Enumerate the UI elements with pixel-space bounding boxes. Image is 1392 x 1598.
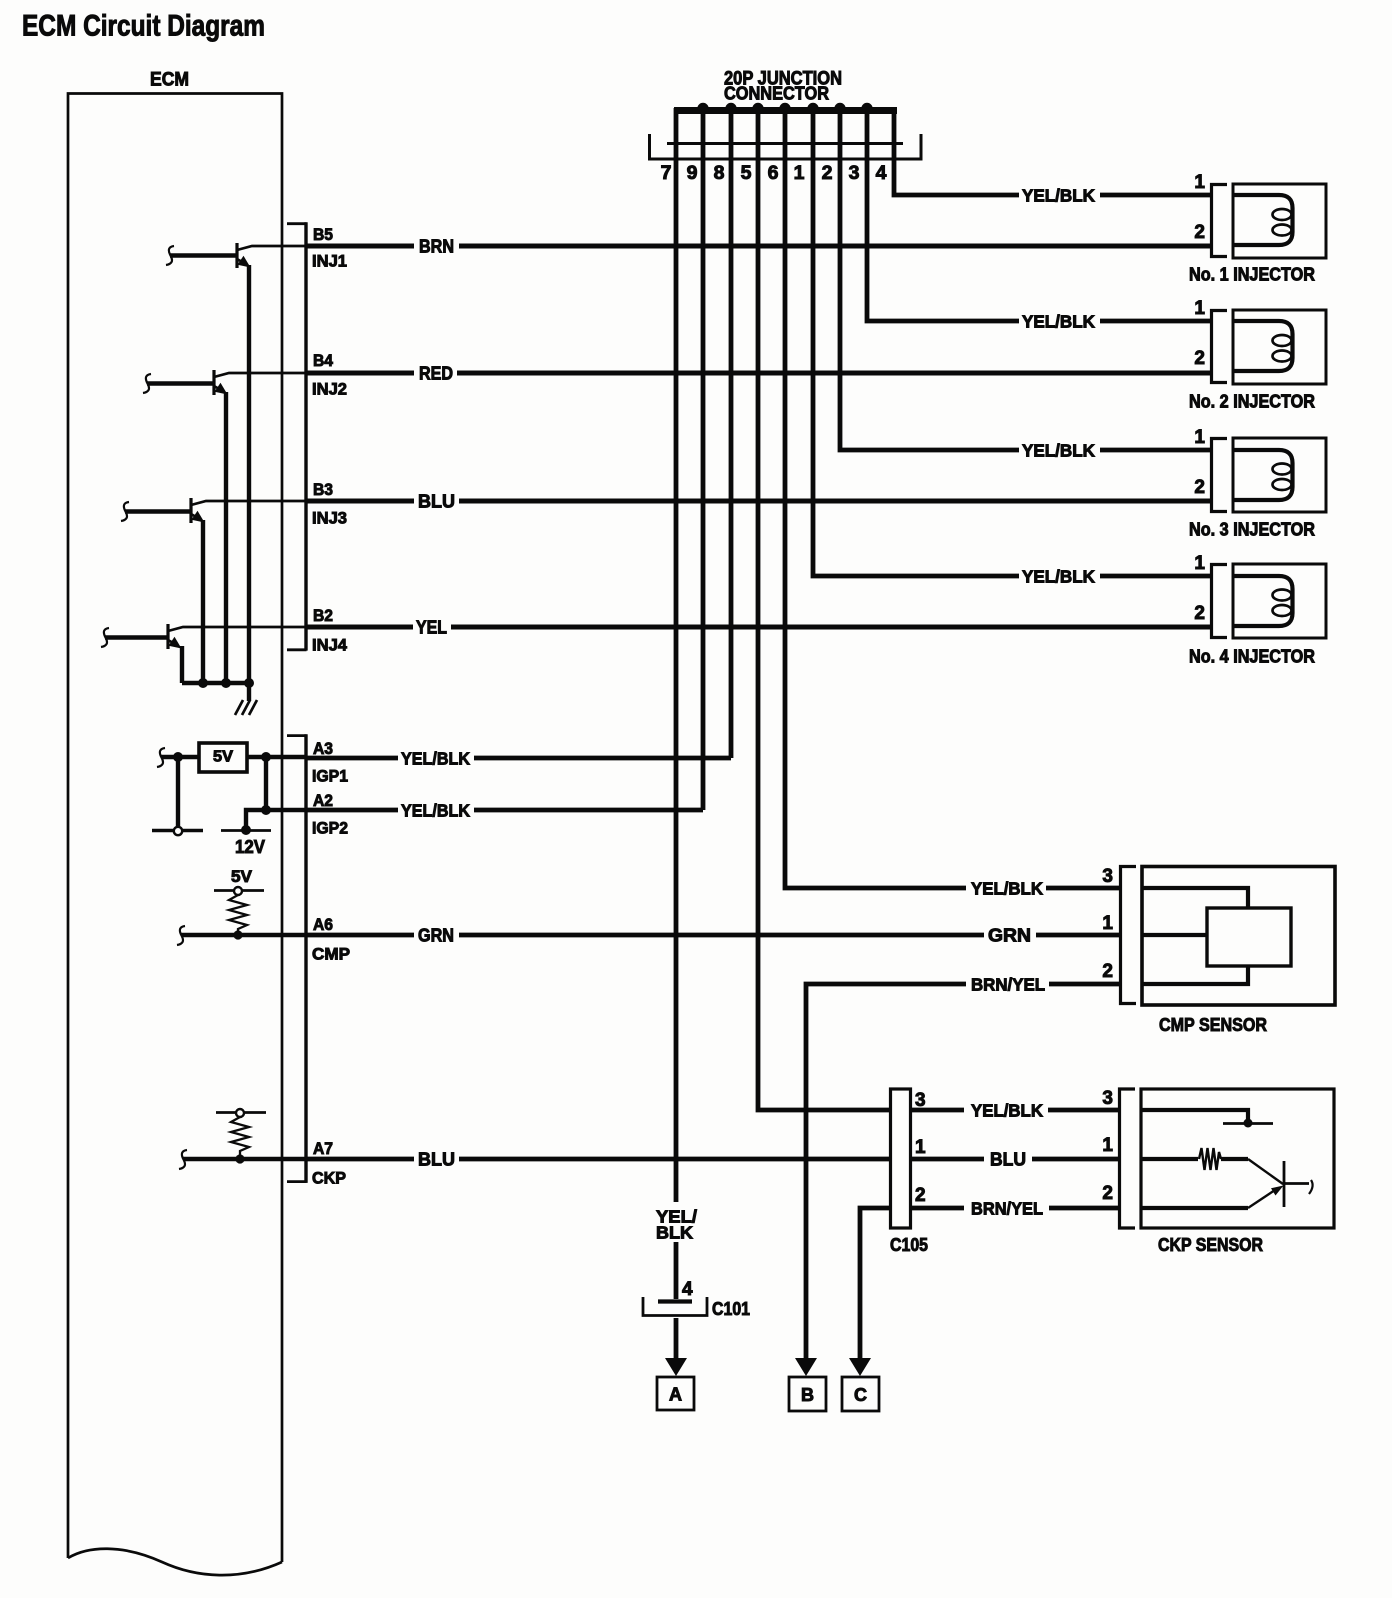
wire YEL/BLK A3 segment	[306, 756, 731, 761]
regulator 5V box	[199, 743, 247, 772]
CKP sensor pickup element	[1248, 1159, 1283, 1184]
svg-text:CMP SENSOR: CMP SENSOR	[1159, 1014, 1267, 1035]
wire pin9 to ECM A2	[701, 108, 706, 810]
wire A7 CKP input	[183, 1157, 306, 1161]
svg-text:2: 2	[1194, 603, 1205, 624]
svg-text:RED: RED	[419, 363, 453, 384]
CMP sensor wire pin3	[1142, 888, 1248, 908]
injector 3 box	[1233, 438, 1326, 512]
svg-text:2: 2	[1102, 1183, 1113, 1204]
svg-text:A7: A7	[313, 1139, 333, 1158]
box B	[789, 1377, 826, 1411]
junction dot CKP pull-up	[235, 1154, 244, 1163]
svg-text:1: 1	[1194, 298, 1205, 319]
supply bar 12V	[221, 829, 271, 832]
svg-text:BLK: BLK	[656, 1223, 693, 1243]
svg-text:5V: 5V	[213, 749, 234, 766]
open circle CKP pull-up	[236, 1109, 244, 1117]
svg-text:1: 1	[1194, 553, 1205, 574]
arrowhead A	[665, 1358, 687, 1376]
junction dot pin 5	[752, 103, 763, 114]
injector 4 box	[1233, 564, 1326, 638]
svg-text:9: 9	[687, 162, 698, 184]
wire pin6 to CMP pin3	[785, 108, 966, 888]
transistor Q2 (INJ2 driver)	[143, 370, 306, 683]
supply bar left	[152, 829, 203, 832]
svg-text:2: 2	[1194, 222, 1205, 243]
resistor CKP pull-up	[231, 1117, 249, 1159]
junction dot pin 3	[861, 103, 872, 114]
svg-text:CKP: CKP	[312, 1169, 346, 1188]
svg-text:2: 2	[1194, 348, 1205, 369]
junction dot 12V	[241, 825, 251, 835]
svg-text:3: 3	[1102, 866, 1113, 887]
injector 4 connector bracket	[1212, 565, 1228, 638]
wire BRN/YEL CMP pin2 to B	[806, 984, 1119, 1360]
svg-text:No. 2 INJECTOR: No. 2 INJECTOR	[1189, 392, 1315, 412]
junction dot 5V input	[173, 752, 183, 762]
box A	[657, 1377, 694, 1410]
junction dot CMP pull-up	[233, 930, 242, 939]
svg-text:CMP: CMP	[312, 945, 350, 964]
svg-text:INJ3: INJ3	[312, 509, 347, 528]
svg-text:2: 2	[1102, 961, 1113, 982]
wire YEL B2 to injector4 pin2	[306, 625, 1211, 630]
svg-text:12V: 12V	[235, 836, 266, 857]
svg-text:4: 4	[682, 1279, 693, 1300]
injector 1 box	[1233, 184, 1326, 258]
wire into 5V regulator	[161, 755, 199, 759]
svg-text:BRN: BRN	[419, 236, 454, 257]
arrowhead C	[849, 1358, 871, 1376]
junction dot Q3 emitter	[198, 678, 208, 688]
svg-text:5V: 5V	[231, 868, 252, 886]
svg-text:ECM Circuit Diagram: ECM Circuit Diagram	[22, 10, 265, 43]
svg-text:YEL/BLK: YEL/BLK	[971, 879, 1043, 899]
wire dot down to A2 wire	[264, 757, 268, 810]
svg-text:A6: A6	[313, 915, 333, 934]
resistor CMP pull-up	[229, 895, 247, 935]
wire BRN/YEL C105 to CKP pin2	[911, 1206, 1120, 1211]
junction dot pin 8	[725, 103, 736, 114]
svg-text:A3: A3	[313, 739, 333, 758]
svg-text:BRN/YEL: BRN/YEL	[971, 975, 1045, 995]
svg-text:CKP SENSOR: CKP SENSOR	[1158, 1234, 1263, 1255]
emitter common rail	[182, 681, 250, 685]
open circle junction left bar	[174, 827, 182, 835]
wire pin5 to C105 pin3	[758, 108, 890, 1110]
curl 5V input	[157, 748, 165, 767]
svg-text:1: 1	[794, 162, 805, 184]
svg-text:2: 2	[822, 162, 833, 184]
injector 3 connector bracket	[1212, 439, 1228, 512]
svg-text:No. 1 INJECTOR: No. 1 INJECTOR	[1189, 265, 1315, 285]
svg-text:GRN: GRN	[988, 925, 1031, 946]
svg-text:B3: B3	[313, 480, 333, 499]
wire YEL/BLK injector1 segment	[1100, 193, 1211, 198]
svg-text:6: 6	[768, 162, 779, 184]
svg-text:YEL/BLK: YEL/BLK	[1022, 441, 1095, 461]
20P junction connector lower rail	[667, 142, 903, 145]
svg-text:YEL: YEL	[416, 617, 447, 638]
wire C101 to A	[674, 1318, 679, 1360]
ECM connector strip A	[287, 736, 307, 1182]
CKP connector bracket	[1120, 1089, 1136, 1228]
ECM connector strip B	[287, 224, 307, 650]
injector 1 connector bracket	[1212, 185, 1228, 257]
svg-text:BLU: BLU	[418, 491, 455, 512]
svg-text:8: 8	[714, 162, 725, 184]
svg-text:B: B	[801, 1385, 814, 1405]
20P junction connector bus bar	[674, 107, 897, 114]
svg-text:INJ1: INJ1	[312, 252, 347, 271]
svg-text:A: A	[669, 1385, 682, 1405]
svg-text:C105: C105	[890, 1235, 928, 1255]
svg-text:2: 2	[915, 1185, 926, 1206]
CMP sensor inner element	[1207, 908, 1291, 966]
wire pin1 to injector4 pin1	[813, 108, 1019, 576]
ECM box wavy bottom edge	[68, 1549, 282, 1575]
ECM box	[68, 94, 282, 1563]
injector 1 coil	[1233, 195, 1293, 245]
svg-text:CONNECTOR: CONNECTOR	[724, 83, 829, 104]
CKP sensor wire pin1 with resistor	[1141, 1157, 1198, 1161]
svg-text:YEL/BLK: YEL/BLK	[1022, 312, 1095, 332]
svg-text:1: 1	[915, 1137, 926, 1158]
wire RED B4 to injector2 pin2	[306, 371, 1211, 376]
wire YEL/BLK injector3 segment	[1100, 448, 1211, 453]
wire pin2 to injector3 pin1	[840, 108, 1019, 450]
svg-text:YEL/BLK: YEL/BLK	[971, 1101, 1043, 1121]
svg-text:2: 2	[1194, 477, 1205, 498]
wire A6 CMP input	[181, 933, 306, 937]
wire YEL/BLK C105 to CKP pin3	[911, 1108, 1120, 1113]
transistor Q3 (INJ3 driver)	[121, 498, 306, 683]
svg-text:YEL/BLK: YEL/BLK	[1022, 567, 1095, 587]
C101 housing bracket	[643, 1297, 707, 1316]
svg-text:YEL/BLK: YEL/BLK	[1022, 186, 1095, 206]
wire pin4 to injector1 pin1	[894, 108, 1019, 195]
wire BLU C105 to CKP pin1	[911, 1157, 1120, 1162]
junction dot A3 wire	[261, 752, 271, 762]
svg-text:GRN: GRN	[418, 925, 454, 946]
curl A7 input	[179, 1150, 187, 1169]
svg-text:No. 3 INJECTOR: No. 3 INJECTOR	[1189, 520, 1315, 540]
svg-text:INJ4: INJ4	[312, 636, 348, 655]
svg-text:YEL/BLK: YEL/BLK	[401, 749, 470, 769]
box C	[842, 1377, 879, 1411]
supply bar CKP pull-up	[216, 1111, 266, 1114]
CMP connector bracket	[1121, 867, 1137, 1004]
ground	[235, 700, 257, 715]
svg-text:YEL/BLK: YEL/BLK	[401, 801, 470, 821]
injector 3 coil	[1233, 450, 1293, 500]
svg-text:ECM: ECM	[150, 70, 189, 91]
transistor Q1 (INJ1 driver)	[166, 243, 306, 683]
svg-text:1: 1	[1194, 172, 1205, 193]
svg-text:B2: B2	[313, 606, 333, 625]
wire BRN/YEL CKP pin2 to C	[860, 1208, 890, 1360]
curl A6 input	[177, 926, 185, 945]
svg-text:A2: A2	[313, 791, 333, 810]
svg-text:IGP2: IGP2	[312, 819, 348, 838]
junction dot Q1 emitter	[244, 678, 254, 688]
wire YEL/BLK CMP pin3 segment	[1046, 886, 1119, 891]
wire YEL/BLK injector4 segment	[1100, 574, 1211, 579]
wire rail to ground	[247, 683, 251, 701]
wire BRN B5 to injector1 pin2	[306, 244, 1211, 249]
wire YEL/BLK injector2 segment	[1100, 319, 1211, 324]
svg-text:BRN/YEL: BRN/YEL	[971, 1199, 1043, 1219]
wire down from 5V input dot	[176, 757, 180, 829]
wire YEL/BLK A2 segment	[306, 808, 703, 813]
svg-text:5: 5	[741, 162, 752, 184]
junction dot Q2 emitter	[221, 678, 231, 688]
junction dot pin 2	[834, 103, 845, 114]
wire BLU A7 to C105	[306, 1157, 890, 1162]
svg-text:No. 4 INJECTOR: No. 4 INJECTOR	[1189, 647, 1315, 667]
wire GRN A6 to CMP sensor	[306, 933, 1119, 938]
svg-text:B5: B5	[313, 225, 333, 244]
CKP sensor wire pin3 shield	[1141, 1110, 1248, 1122]
svg-text:3: 3	[1102, 1088, 1113, 1109]
injector 4 coil	[1233, 576, 1293, 626]
svg-text:1: 1	[1102, 913, 1113, 934]
CMP sensor wire pin1	[1142, 933, 1207, 937]
wire A3 from 5V regulator to ECM	[247, 755, 306, 759]
junction dot pin 1	[807, 103, 818, 114]
junction dot A2 wire	[261, 805, 271, 815]
svg-text:IGP1: IGP1	[312, 767, 348, 786]
injector 2 connector bracket	[1212, 311, 1228, 383]
svg-text:7: 7	[661, 162, 672, 184]
arrowhead B	[795, 1358, 817, 1376]
wire pin3 to injector2 pin1	[867, 108, 1019, 321]
svg-text:1: 1	[1194, 427, 1205, 448]
wire pin8 to ECM A3	[729, 108, 734, 758]
junction dot pin 6	[779, 103, 790, 114]
supply bar CMP pull-up	[214, 889, 264, 892]
svg-text:INJ2: INJ2	[312, 380, 347, 399]
svg-text:1: 1	[1102, 1135, 1113, 1156]
svg-text:C: C	[854, 1385, 867, 1405]
wire BLU B3 to injector3 pin2	[306, 499, 1211, 504]
transistor Q4 (INJ4 driver)	[101, 624, 306, 683]
20P junction connector housing bracket	[650, 134, 922, 159]
svg-text:BLU: BLU	[418, 1149, 455, 1170]
wire A2 from 12V	[246, 810, 306, 830]
svg-text:3: 3	[849, 162, 860, 184]
CKP sensor box	[1141, 1089, 1334, 1228]
CKP sensor wire pin2	[1141, 1206, 1248, 1210]
C101 pin bar	[658, 1299, 692, 1303]
injector 2 coil	[1233, 321, 1293, 371]
svg-text:BLU: BLU	[990, 1149, 1026, 1170]
wire pin7 to C101	[674, 108, 679, 1299]
junction dot pin 9	[697, 103, 708, 114]
svg-text:4: 4	[876, 162, 887, 184]
svg-text:B4: B4	[313, 351, 333, 370]
svg-text:C101: C101	[712, 1299, 750, 1319]
CMP sensor wire pin2	[1142, 966, 1248, 984]
injector 2 box	[1233, 310, 1326, 384]
C105 connector bar	[891, 1089, 911, 1228]
open circle CMP pull-up	[234, 887, 242, 895]
CMP sensor box	[1142, 867, 1335, 1006]
